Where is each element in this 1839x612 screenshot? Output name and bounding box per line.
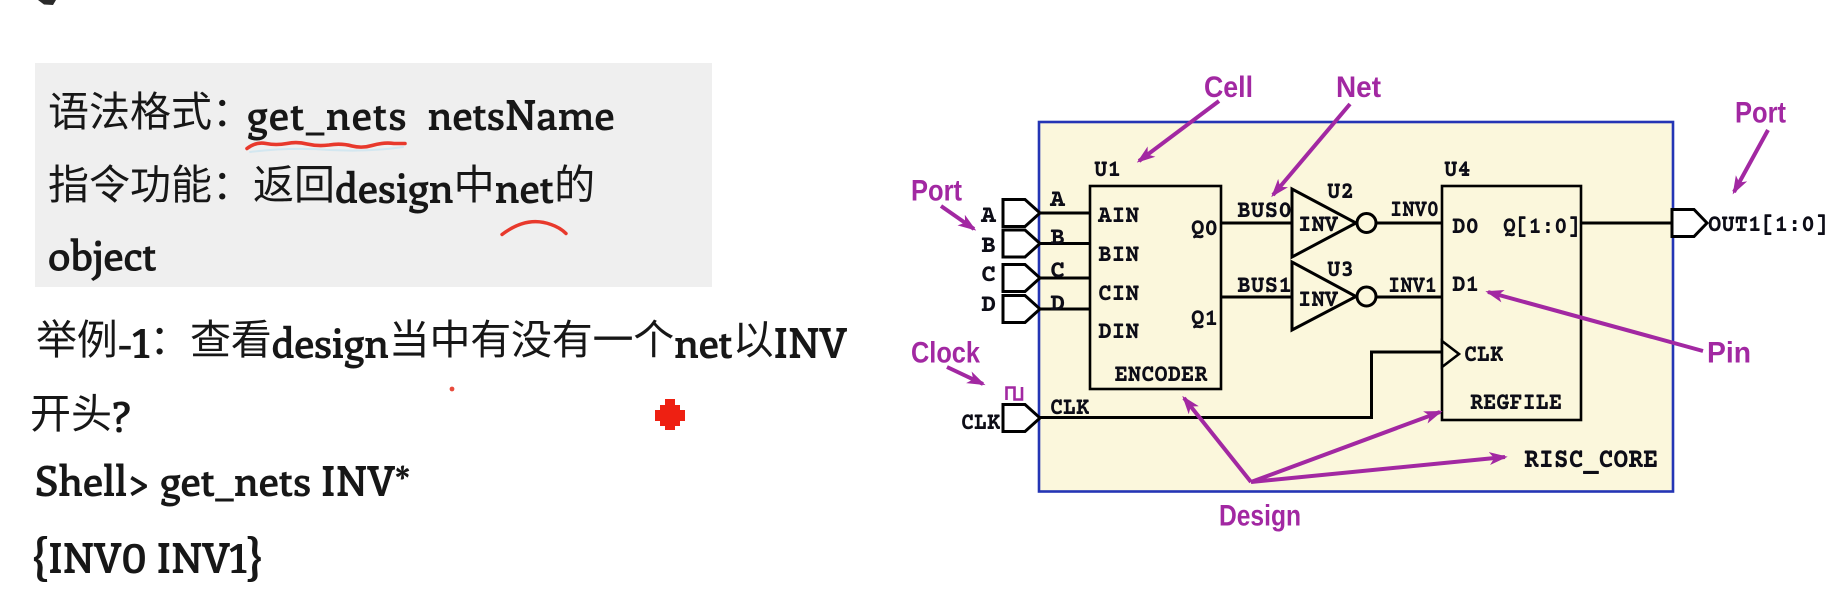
svg-text:Port: Port bbox=[1735, 97, 1786, 130]
svg-text:INV: INV bbox=[1298, 286, 1339, 315]
svg-text:INV0: INV0 bbox=[1390, 196, 1439, 225]
svg-text:INV1: INV1 bbox=[1388, 272, 1437, 301]
svg-text:Net: Net bbox=[1336, 71, 1381, 104]
svg-text:Q1: Q1 bbox=[1191, 305, 1218, 334]
svg-text:D1: D1 bbox=[1452, 271, 1479, 300]
svg-text:CLK: CLK bbox=[961, 409, 1000, 438]
svg-text:{INV0 INV1}: {INV0 INV1} bbox=[32, 523, 262, 586]
svg-text:CLK: CLK bbox=[1050, 394, 1089, 423]
svg-text:CLK: CLK bbox=[1464, 341, 1503, 370]
svg-text:INV: INV bbox=[1298, 211, 1339, 240]
svg-text:Pin: Pin bbox=[1707, 337, 1751, 370]
svg-text:D: D bbox=[1050, 290, 1065, 319]
svg-text:OUT1[1:0]: OUT1[1:0] bbox=[1708, 211, 1828, 240]
svg-text:AIN: AIN bbox=[1097, 202, 1139, 231]
svg-text:指令功能：返回design中net的: 指令功能：返回design中net的 bbox=[48, 155, 595, 214]
svg-text:Q[1:0]: Q[1:0] bbox=[1503, 213, 1580, 242]
svg-text:语法格式：get_nets netsName: 语法格式：get_nets netsName bbox=[48, 82, 615, 141]
svg-text:Shell> get_nets INV*: Shell> get_nets INV* bbox=[35, 452, 410, 507]
svg-text:Clock: Clock bbox=[911, 337, 980, 370]
svg-text:Port: Port bbox=[911, 175, 962, 208]
svg-text:C: C bbox=[1050, 257, 1065, 286]
svg-text:B: B bbox=[981, 232, 996, 261]
svg-text:C: C bbox=[981, 261, 996, 290]
svg-text:BUS1: BUS1 bbox=[1237, 272, 1292, 301]
svg-text:RISC_CORE: RISC_CORE bbox=[1524, 445, 1658, 477]
svg-text:BUS0: BUS0 bbox=[1237, 197, 1292, 226]
svg-text:REGFILE: REGFILE bbox=[1470, 389, 1562, 418]
svg-text:U2: U2 bbox=[1327, 178, 1354, 207]
svg-text:object: object bbox=[48, 227, 157, 282]
svg-text:A: A bbox=[1049, 186, 1066, 215]
svg-text:A: A bbox=[980, 202, 997, 231]
svg-text:DIN: DIN bbox=[1098, 318, 1139, 347]
svg-text:BIN: BIN bbox=[1098, 241, 1139, 270]
svg-text:开头?: 开头? bbox=[30, 384, 131, 443]
svg-text:U3: U3 bbox=[1327, 256, 1354, 285]
svg-text:U4: U4 bbox=[1444, 156, 1471, 185]
svg-text:Cell: Cell bbox=[1204, 71, 1253, 104]
svg-text:Q0: Q0 bbox=[1191, 215, 1218, 244]
svg-text:D: D bbox=[981, 291, 996, 320]
svg-text:D0: D0 bbox=[1452, 213, 1479, 242]
svg-text:举例-1：查看design当中有没有一个net以INV: 举例-1：查看design当中有没有一个net以INV bbox=[36, 310, 847, 369]
svg-text:Design: Design bbox=[1219, 500, 1301, 533]
svg-text:B: B bbox=[1050, 224, 1065, 253]
svg-text:U1: U1 bbox=[1094, 156, 1121, 185]
svg-text:CIN: CIN bbox=[1098, 280, 1139, 309]
svg-text:ENCODER: ENCODER bbox=[1115, 361, 1208, 390]
